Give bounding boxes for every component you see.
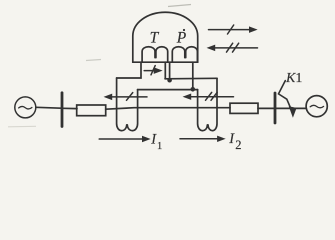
svg-text:T: T bbox=[150, 30, 160, 47]
svg-text:1: 1 bbox=[157, 141, 162, 152]
svg-text:P: P bbox=[176, 30, 187, 47]
svg-text:K1: K1 bbox=[285, 71, 302, 86]
svg-text:2: 2 bbox=[235, 138, 241, 152]
